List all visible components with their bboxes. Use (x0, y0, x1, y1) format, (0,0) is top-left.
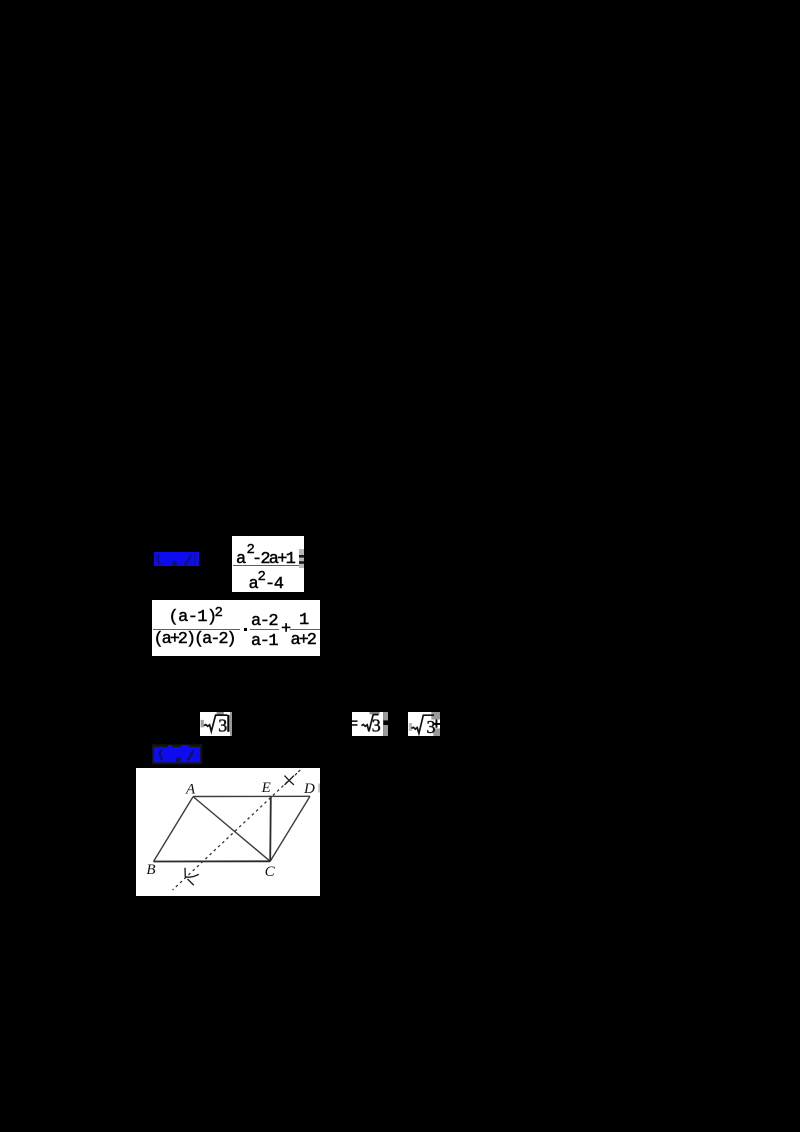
svg-text:A: A (185, 782, 196, 798)
segment EC (269, 796, 272, 861)
sqrt(3) snippet A (200, 712, 232, 736)
answer label 1 (blue highlighted) (150, 549, 206, 571)
svg-text:E: E (261, 780, 271, 796)
dashed construction line (173, 780, 290, 890)
svg-text:B: B (146, 862, 155, 878)
dashed line extra dashes beyond X (295, 773, 297, 775)
svg-text:3: 3 (427, 717, 436, 736)
side AB (154, 797, 194, 862)
side BC (154, 860, 271, 862)
svg-text:C: C (265, 864, 276, 880)
side CD (270, 796, 310, 861)
answer label 2 (blue on dark) (150, 742, 206, 767)
lower arc/arrow mark (184, 868, 186, 878)
svg-text:3: 3 (372, 716, 381, 736)
svg-text:3: 3 (218, 715, 227, 735)
svg-text:D: D (303, 781, 315, 797)
X arc-intersection mark (285, 776, 294, 785)
clipped grey equals at right edge (299, 549, 304, 568)
fraction box 2: (a-1)^2/((a+2)(a-2)) . (a-2)/(a-1) + 1/(a+2) (152, 600, 320, 656)
fraction box 1: (a^2-2a+1)/(a^2-4) (232, 536, 304, 592)
geometry figure: parallelogram ABCD with E on AD (136, 768, 320, 896)
diagonal AC (193, 797, 270, 862)
side AD (193, 795, 310, 797)
sqrt(3) snippet C (v3+) (408, 712, 440, 736)
sqrt(3) snippet B (=v3) (352, 712, 389, 736)
